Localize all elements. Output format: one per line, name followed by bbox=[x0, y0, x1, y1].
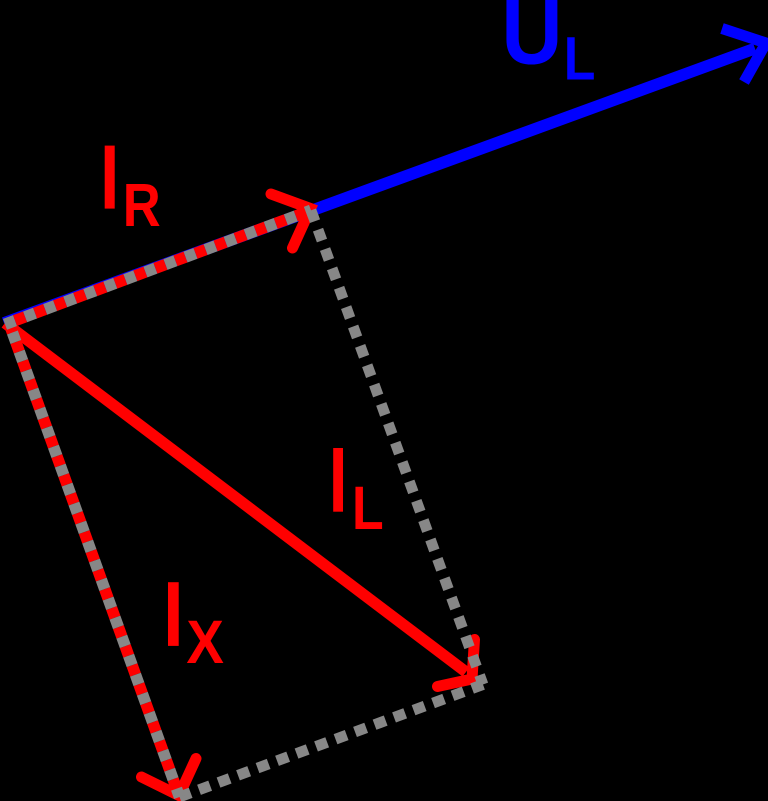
label I_R : letter I (drawn as bar) bbox=[105, 146, 115, 209]
arrowhead of U_L bbox=[722, 29, 766, 83]
wire: I_R vector red dash component O to A bbox=[5, 210, 311, 324]
wire: red solid current vector I_L shaft from O toward C bbox=[5, 323, 466, 672]
svg-text:L: L bbox=[352, 474, 384, 542]
svg-text:U: U bbox=[501, 0, 562, 83]
wire: gray dotted construction line from node A (I_R tip) to node C bbox=[311, 210, 483, 684]
wire: I_X vector gray dash component O to B bbox=[9, 323, 180, 797]
svg-text:X: X bbox=[186, 609, 224, 677]
label I_L : letter I (drawn as bar) bbox=[333, 448, 343, 512]
arrowhead of I_L bbox=[438, 640, 475, 687]
label I_X : letter I (drawn as bar) bbox=[168, 582, 179, 646]
arrowhead of I_X bbox=[142, 759, 197, 796]
svg-text:L: L bbox=[564, 24, 596, 92]
wire: blue voltage vector U_L shaft from origin O to upper right bbox=[4, 49, 755, 324]
wire: I_X vector red dash component O to B bbox=[9, 323, 180, 797]
wire: gray dotted construction line from node B (I_X tip) to node C bbox=[180, 685, 484, 798]
svg-text:R: R bbox=[123, 171, 161, 240]
arrowhead of I_R bbox=[271, 194, 311, 248]
wire: I_R vector gray dash component O to A bbox=[5, 210, 311, 324]
